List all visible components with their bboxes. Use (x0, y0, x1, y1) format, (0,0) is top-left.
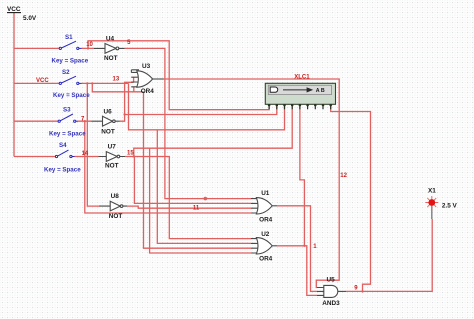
junction node net5 dot (204, 197, 208, 201)
wire net 9 AND3 output to probe (346, 219, 432, 291)
junction node row2 x87.3 (86, 82, 88, 84)
switch S3 (58, 114, 78, 122)
svg-text:15: 15 (127, 150, 134, 156)
svg-text:OR4: OR4 (259, 216, 273, 223)
junction node U6out pin2 (123, 113, 125, 115)
wire net 7 branch to U1 in4 (85, 121, 251, 213)
or4-gate U1 (251, 198, 277, 214)
junction node row1 x88 (87, 47, 89, 49)
svg-text:Key = Space: Key = Space (52, 58, 89, 65)
svg-text:U1: U1 (261, 190, 270, 197)
junction node row3 x84.8 (84, 120, 86, 122)
svg-text:OR4: OR4 (259, 256, 273, 263)
svg-text:5.0V: 5.0V (23, 15, 37, 22)
wire net 14 row4 (14, 156, 99, 158)
wire net 15 U7 output (125, 157, 251, 239)
svg-text:2.5 V: 2.5 V (442, 203, 458, 210)
svg-text:VCC: VCC (36, 78, 49, 84)
wire U2 in3 feed (144, 92, 252, 248)
switch S1 (59, 41, 81, 49)
junction node net9 (361, 290, 363, 292)
wire U6 output to U3 in3 and pin2 (120, 77, 277, 121)
svg-text:NOT: NOT (109, 213, 123, 220)
not-gate U7 (99, 152, 126, 162)
svg-text:U8: U8 (111, 193, 120, 200)
switch S2 (59, 76, 81, 84)
wire net 15 branch to U1 in2 (134, 157, 251, 204)
svg-text:U3: U3 (142, 63, 151, 70)
svg-text:XLC1: XLC1 (294, 74, 310, 80)
wire U2 in4 feed (150, 148, 251, 253)
not-gate U8 (99, 201, 127, 211)
svg-text:U5: U5 (327, 276, 336, 283)
svg-text:A B: A B (316, 88, 325, 94)
svg-text:13: 13 (113, 77, 120, 83)
wire net 12 U3 output (164, 79, 339, 288)
svg-text:Key = Space: Key = Space (49, 130, 86, 137)
svg-text:VCC: VCC (7, 6, 21, 13)
not-gate U4 (94, 44, 125, 54)
svg-text:12: 12 (340, 173, 347, 179)
wire net 11 U8 output to U1 in3 (127, 206, 251, 208)
svg-text:10: 10 (86, 42, 93, 48)
wire pin5 to net 1 (300, 104, 305, 246)
svg-text:S2: S2 (62, 69, 70, 76)
svg-text:NOT: NOT (104, 55, 118, 62)
svg-text:U2: U2 (261, 231, 270, 238)
svg-text:S1: S1 (65, 34, 73, 41)
wire VCC rail (13, 13, 15, 157)
svg-text:AND3: AND3 (322, 300, 340, 307)
svg-text:U7: U7 (108, 144, 117, 151)
svg-text:OR4: OR4 (141, 88, 155, 95)
or4-gate U2 (251, 238, 277, 254)
junction node net1 pin5 (303, 245, 305, 247)
svg-text:S3: S3 (63, 107, 71, 114)
wire net 5 U4 output (125, 48, 251, 198)
wire net 1 U2 output to AND3 in3 (277, 246, 317, 296)
wire net 13 branch to pin3 (129, 83, 285, 129)
wire net 10 row1 (14, 41, 269, 110)
switch S4 (55, 150, 74, 157)
wire pin9 to net 9 (331, 105, 371, 292)
or4-gate U3 (131, 70, 164, 87)
wire net 7 row3 (14, 120, 92, 122)
svg-text:S4: S4 (59, 142, 67, 149)
svg-text:NOT: NOT (101, 128, 115, 135)
wire net 13 branch to U8 input (87, 83, 99, 206)
svg-text:X1: X1 (428, 188, 436, 195)
VCC power symbol (7, 12, 21, 14)
wire net 13 row2 (14, 82, 129, 84)
not-gate U6 (92, 116, 120, 126)
probe X1 (425, 196, 438, 219)
wire net 15 branch to pin4 (134, 105, 292, 157)
junction node row2 x92.3 (91, 82, 93, 84)
and3-gate U5 (317, 285, 346, 297)
svg-text:U6: U6 (104, 109, 113, 116)
svg-text:Key = Space: Key = Space (44, 166, 81, 173)
svg-text:NOT: NOT (105, 163, 119, 170)
logic converter XLC1 (265, 83, 335, 109)
junction node U7out x133.8 (133, 155, 135, 157)
wire net 13 branch to U3 in4 (92, 83, 143, 91)
svg-text:14: 14 (82, 151, 89, 157)
svg-text:U4: U4 (106, 36, 115, 43)
wire U2 in2 feed (157, 130, 251, 244)
wire U1 output to AND3 in2 (277, 206, 317, 292)
svg-text:11: 11 (193, 206, 200, 212)
svg-text:Key = Space: Key = Space (53, 92, 90, 99)
